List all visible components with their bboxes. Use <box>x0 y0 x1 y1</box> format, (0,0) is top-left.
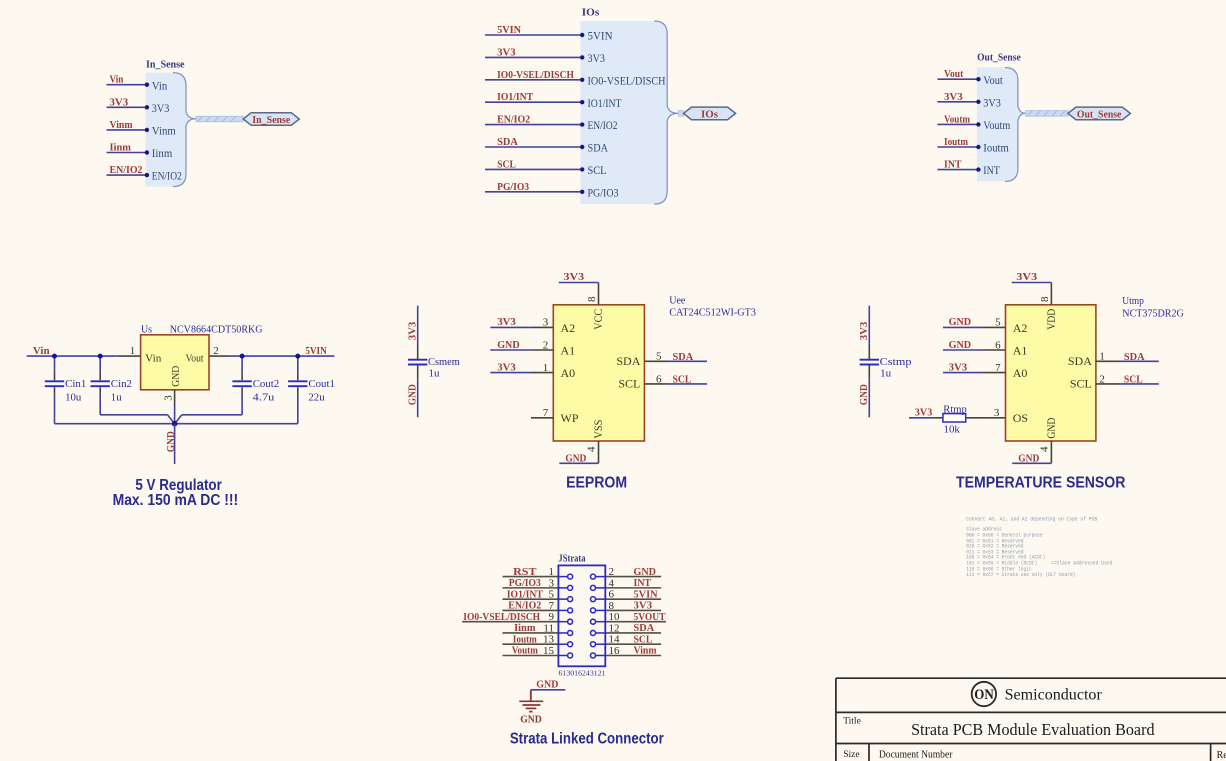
svg-text:GND: GND <box>497 339 520 351</box>
svg-text:INT: INT <box>634 577 652 589</box>
svg-text:5: 5 <box>656 351 662 363</box>
svg-text:2: 2 <box>1099 373 1105 385</box>
svg-text:GND: GND <box>1018 453 1039 465</box>
svg-text:A1: A1 <box>561 343 576 357</box>
svg-text:IO1/INT: IO1/INT <box>497 91 534 103</box>
svg-text:4: 4 <box>609 577 615 589</box>
svg-text:VSS: VSS <box>591 420 605 439</box>
svg-text:6: 6 <box>656 373 662 385</box>
svg-text:SCL: SCL <box>1124 373 1143 385</box>
svg-text:3V3: 3V3 <box>152 101 170 115</box>
svg-text:3: 3 <box>543 317 549 329</box>
svg-text:Vin: Vin <box>145 353 162 365</box>
svg-text:GND: GND <box>949 316 972 328</box>
svg-text:10u: 10u <box>65 392 82 404</box>
svg-text:3V3: 3V3 <box>110 96 129 108</box>
svg-text:7: 7 <box>549 600 555 612</box>
svg-text:5VIN: 5VIN <box>497 24 521 36</box>
svg-text:3: 3 <box>162 395 174 401</box>
svg-text:Iinm: Iinm <box>514 622 535 634</box>
svg-text:EN/IO2: EN/IO2 <box>588 118 618 132</box>
svg-text:5VIN: 5VIN <box>305 345 327 357</box>
svg-text:Vin: Vin <box>33 345 50 357</box>
svg-text:Cin1: Cin1 <box>65 378 86 390</box>
svg-text:JStrata: JStrata <box>558 553 586 565</box>
svg-text:Ioutm: Ioutm <box>944 136 968 148</box>
svg-text:8: 8 <box>586 296 598 302</box>
svg-text:ON: ON <box>974 687 994 703</box>
svg-text:RST: RST <box>513 566 537 578</box>
svg-text:IOs: IOs <box>582 7 600 19</box>
svg-text:SDA: SDA <box>1124 351 1145 363</box>
svg-text:IO0-VSEL/DISCH: IO0-VSEL/DISCH <box>463 611 540 623</box>
svg-text:613016243121: 613016243121 <box>559 669 607 677</box>
svg-text:NCT375DR2G: NCT375DR2G <box>1122 307 1184 319</box>
svg-text:Iinm: Iinm <box>110 142 131 154</box>
svg-text:Uee: Uee <box>669 294 685 306</box>
svg-text:SCL: SCL <box>634 633 653 645</box>
svg-text:5: 5 <box>549 589 555 601</box>
svg-text:Vinm: Vinm <box>152 124 177 138</box>
svg-text:GND: GND <box>949 339 972 351</box>
svg-text:EN/IO2: EN/IO2 <box>110 164 143 176</box>
svg-text:CAT24C512WI-GT3: CAT24C512WI-GT3 <box>669 307 756 319</box>
svg-text:2: 2 <box>609 566 615 578</box>
svg-text:3V3: 3V3 <box>497 46 516 58</box>
svg-text:IOs: IOs <box>701 109 719 121</box>
svg-text:SDA: SDA <box>616 354 640 368</box>
svg-text:IO1/INT: IO1/INT <box>507 588 544 600</box>
svg-text:3V3: 3V3 <box>983 95 1001 109</box>
svg-text:Voutm: Voutm <box>512 645 538 657</box>
svg-text:WP: WP <box>561 411 579 425</box>
svg-text:6: 6 <box>609 589 615 601</box>
svg-text:SDA: SDA <box>673 351 694 363</box>
svg-text:16: 16 <box>609 645 621 657</box>
svg-text:Rtmp: Rtmp <box>943 403 967 415</box>
svg-text:Csmem: Csmem <box>428 356 460 368</box>
svg-text:1: 1 <box>130 345 136 357</box>
svg-text:4.7u: 4.7u <box>253 392 275 404</box>
svg-text:SCL: SCL <box>673 373 692 385</box>
svg-text:Cout1: Cout1 <box>308 378 335 390</box>
svg-text:INT: INT <box>983 163 1000 177</box>
svg-text:3V3: 3V3 <box>949 361 968 373</box>
svg-text:Strata Linked Connector: Strata Linked Connector <box>510 730 664 747</box>
svg-text:7: 7 <box>543 407 549 419</box>
svg-text:5VIN: 5VIN <box>634 588 658 600</box>
svg-text:9: 9 <box>549 611 555 623</box>
svg-text:3V3: 3V3 <box>497 361 516 373</box>
svg-text:EN/IO2: EN/IO2 <box>508 600 541 612</box>
svg-text:<=Slave Addressed Used: <=Slave Addressed Used <box>1051 561 1113 567</box>
svg-text:PG/IO3: PG/IO3 <box>509 577 541 589</box>
svg-text:7: 7 <box>995 362 1001 374</box>
svg-text:Cin2: Cin2 <box>111 378 132 390</box>
svg-text:Out_Sense: Out_Sense <box>1077 109 1122 121</box>
svg-text:1: 1 <box>543 362 549 374</box>
svg-text:In_Sense: In_Sense <box>146 59 185 71</box>
svg-text:5: 5 <box>995 317 1001 329</box>
svg-text:A1: A1 <box>1013 343 1028 357</box>
svg-text:Vinm: Vinm <box>110 119 133 131</box>
svg-text:3V3: 3V3 <box>1016 271 1037 283</box>
svg-text:Cout2: Cout2 <box>253 378 280 390</box>
svg-text:8: 8 <box>1039 296 1051 302</box>
svg-text:VCC: VCC <box>591 309 605 330</box>
svg-text:6: 6 <box>995 339 1001 351</box>
svg-text:TEMPERATURE SENSOR: TEMPERATURE SENSOR <box>956 475 1125 492</box>
svg-text:GND: GND <box>170 366 182 387</box>
svg-text:Max. 150 mA DC !!!: Max. 150 mA DC !!! <box>113 492 239 509</box>
svg-text:SCL: SCL <box>497 158 516 170</box>
svg-text:INT: INT <box>944 159 962 171</box>
svg-text:11: 11 <box>543 622 554 634</box>
svg-text:3V3: 3V3 <box>497 316 516 328</box>
svg-text:10: 10 <box>609 611 621 623</box>
svg-text:GND: GND <box>536 679 558 691</box>
svg-text:3V3: 3V3 <box>406 321 418 340</box>
svg-text:Voutm: Voutm <box>944 113 970 125</box>
svg-text:5VIN: 5VIN <box>588 29 613 43</box>
svg-text:EEPROM: EEPROM <box>566 475 627 492</box>
svg-text:GND: GND <box>565 453 586 465</box>
svg-text:3V3: 3V3 <box>858 321 870 340</box>
svg-text:3V3: 3V3 <box>564 271 585 283</box>
svg-text:2: 2 <box>213 345 219 357</box>
svg-text:1u: 1u <box>429 368 441 380</box>
svg-text:22u: 22u <box>308 392 325 404</box>
svg-text:A2: A2 <box>1013 321 1028 335</box>
svg-text:Us: Us <box>141 324 152 336</box>
svg-text:1: 1 <box>549 566 555 578</box>
svg-text:GND: GND <box>520 714 542 726</box>
svg-text:A0: A0 <box>561 366 576 380</box>
svg-text:Document Number: Document Number <box>879 750 953 761</box>
svg-text:PG/IO3: PG/IO3 <box>497 181 529 193</box>
svg-text:Vout: Vout <box>983 73 1003 87</box>
svg-text:Semiconductor: Semiconductor <box>1005 687 1103 704</box>
svg-text:Vin: Vin <box>110 74 124 86</box>
svg-text:VDD: VDD <box>1044 309 1058 330</box>
svg-text:SCL: SCL <box>618 377 640 391</box>
svg-text:1: 1 <box>1099 351 1105 363</box>
svg-text:IO0-VSEL/DISCH: IO0-VSEL/DISCH <box>497 69 574 81</box>
svg-text:Size: Size <box>843 750 859 760</box>
svg-text:OS: OS <box>1013 411 1028 425</box>
svg-text:SCL: SCL <box>1070 377 1092 391</box>
svg-text:4: 4 <box>1039 446 1051 452</box>
svg-text:5VOUT: 5VOUT <box>634 611 667 623</box>
svg-text:3V3: 3V3 <box>588 51 606 65</box>
svg-text:SCL: SCL <box>588 163 607 177</box>
svg-text:A0: A0 <box>1013 366 1028 380</box>
svg-text:3: 3 <box>994 407 1000 419</box>
svg-text:In_Sense: In_Sense <box>252 114 290 126</box>
svg-text:2: 2 <box>543 339 549 351</box>
svg-text:A2: A2 <box>561 321 576 335</box>
svg-text:IO1/INT: IO1/INT <box>588 96 623 110</box>
svg-text:10k: 10k <box>944 423 961 435</box>
svg-text:Iinm: Iinm <box>152 146 173 160</box>
svg-text:Ioutm: Ioutm <box>513 633 537 645</box>
svg-text:GND: GND <box>165 431 177 452</box>
svg-text:1u: 1u <box>111 392 122 404</box>
svg-text:Vin: Vin <box>152 78 168 92</box>
svg-text:Cstmp: Cstmp <box>880 356 912 368</box>
svg-text:Utmp: Utmp <box>1122 295 1144 307</box>
svg-text:3: 3 <box>549 577 555 589</box>
svg-text:Re: Re <box>1217 750 1226 761</box>
svg-text:Title: Title <box>843 717 861 727</box>
svg-text:SDA: SDA <box>588 141 609 155</box>
svg-text:14: 14 <box>609 634 621 646</box>
svg-text:IO0-VSEL/DISCH: IO0-VSEL/DISCH <box>588 73 666 87</box>
svg-text:NCV8664CDT50RKG: NCV8664CDT50RKG <box>170 324 263 336</box>
svg-text:Out_Sense: Out_Sense <box>977 52 1021 64</box>
svg-text:3V3: 3V3 <box>915 407 933 419</box>
svg-text:Vout: Vout <box>944 68 964 80</box>
svg-text:13: 13 <box>543 634 555 646</box>
svg-text:3V3: 3V3 <box>634 600 653 612</box>
svg-text:15: 15 <box>543 645 555 657</box>
svg-text:GND: GND <box>1044 417 1058 438</box>
svg-text:Connect A0, A1, and A2 dependi: Connect A0, A1, and A2 depending on type… <box>966 516 1097 522</box>
svg-text:EN/IO2: EN/IO2 <box>152 169 182 183</box>
svg-text:GND: GND <box>634 566 657 578</box>
svg-text:Voutm: Voutm <box>983 118 1011 132</box>
svg-text:Vout: Vout <box>186 353 204 365</box>
svg-text:12: 12 <box>609 622 620 634</box>
svg-text:Vinm: Vinm <box>634 645 657 657</box>
svg-text:Slave address: Slave address <box>966 527 1002 533</box>
svg-text:Strata PCB Module Evaluation B: Strata PCB Module Evaluation Board <box>911 720 1155 739</box>
svg-text:SDA: SDA <box>1068 354 1092 368</box>
svg-text:GND: GND <box>406 384 418 405</box>
svg-text:3V3: 3V3 <box>944 91 963 103</box>
svg-text:GND: GND <box>858 384 870 405</box>
svg-text:EN/IO2: EN/IO2 <box>497 114 530 126</box>
svg-text:SDA: SDA <box>497 136 518 148</box>
svg-text:SDA: SDA <box>634 622 655 634</box>
svg-text:8: 8 <box>609 600 615 612</box>
svg-text:Ioutm: Ioutm <box>983 141 1009 155</box>
svg-text:4: 4 <box>586 446 598 452</box>
svg-text:111 = 0x57 = Strata use only (: 111 = 0x57 = Strata use only (DLT board) <box>966 572 1075 578</box>
svg-text:1u: 1u <box>880 368 892 380</box>
svg-text:PG/IO3: PG/IO3 <box>588 185 619 199</box>
